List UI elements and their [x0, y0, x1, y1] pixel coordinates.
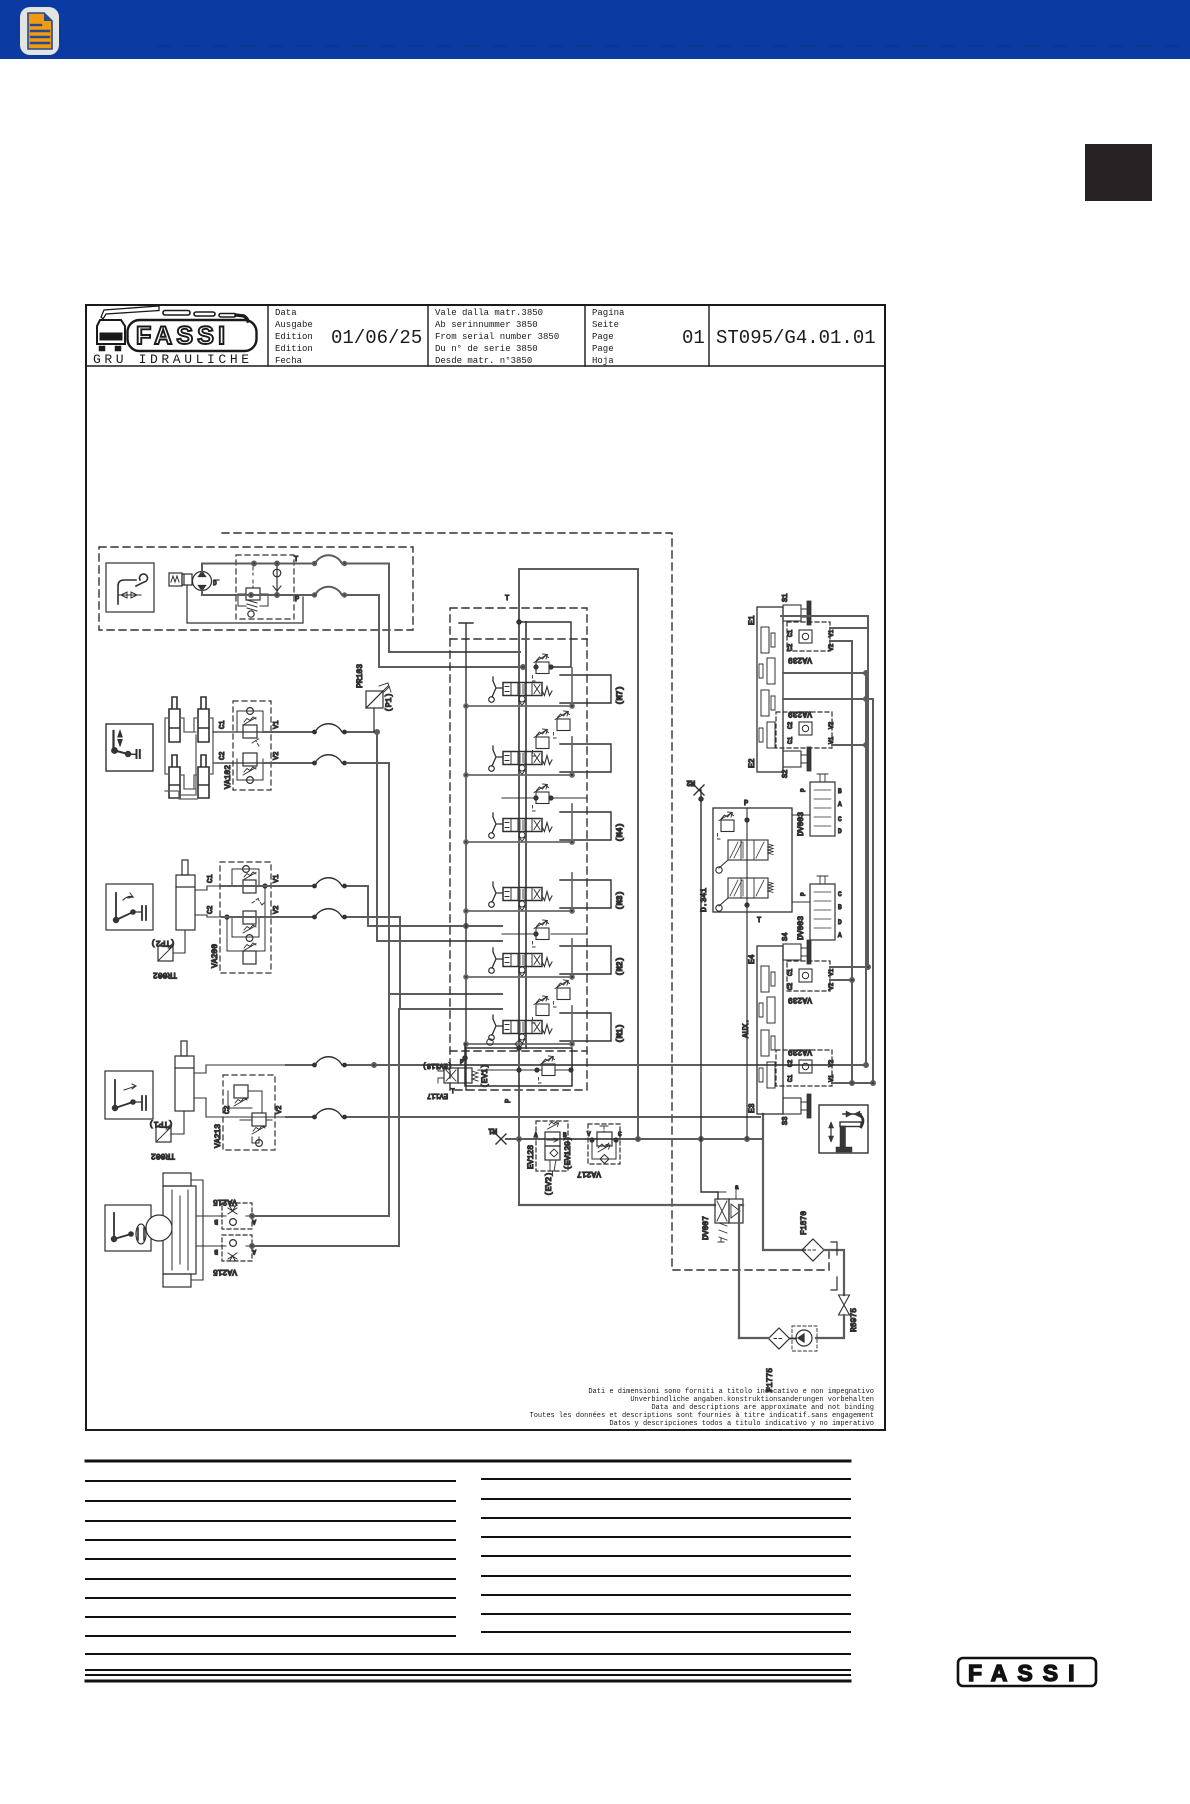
svg-text:TR002: TR002: [151, 1151, 175, 1160]
bracket port M7: [560, 675, 625, 705]
svg-text:VA213: VA213: [214, 1124, 223, 1148]
svg-text:PR103: PR103: [356, 664, 365, 688]
svg-text:E1: E1: [748, 615, 757, 625]
svg-text:C2: C2: [224, 1106, 232, 1114]
wire V1 group2: [222, 886, 502, 928]
svg-text:C2: C2: [787, 982, 794, 990]
svg-text:GRU IDRAULICHE: GRU IDRAULICHE: [93, 352, 253, 367]
svg-text:C: C: [838, 891, 842, 898]
wire bottom return: [739, 1337, 769, 1339]
svg-text:Pagina: Pagina: [592, 308, 625, 318]
bottom rule lines: [86, 1461, 850, 1681]
svg-text:Page: Page: [592, 332, 614, 342]
bus vertical b: [781, 616, 868, 967]
solenoid valve EV117: [423, 1059, 490, 1099]
cylinder group3: [175, 1041, 286, 1117]
valve bank dashed enclosure: [450, 608, 587, 1090]
svg-text:E2: E2: [748, 758, 757, 768]
svg-text:Du n° de serie 3850: Du n° de serie 3850: [435, 344, 538, 354]
wire pump P line: [202, 591, 313, 598]
svg-text:Fecha: Fecha: [275, 356, 303, 366]
svg-text:(M4): (M4): [616, 823, 625, 842]
svg-text:D.341: D.341: [700, 888, 709, 912]
bracket port M3: [560, 880, 625, 910]
ICON: orange document glyph: [28, 13, 52, 49]
svg-text:B: B: [838, 904, 842, 911]
svg-text:A: A: [252, 1248, 256, 1255]
svg-text:V1: V1: [828, 736, 835, 744]
svg-text:F1870: F1870: [800, 1211, 809, 1235]
svg-text:T: T: [757, 917, 761, 925]
bank spool valve M7: [489, 677, 552, 706]
svg-text:P: P: [800, 788, 807, 792]
wire VA239 n3 out: [830, 965, 870, 982]
icon box winch: [105, 1205, 151, 1251]
svg-text:Page: Page: [592, 344, 614, 354]
labels C1 C2 V1 V2 group1: [219, 721, 281, 760]
wire M1 line: [506, 1137, 762, 1141]
svg-text:V2: V2: [828, 982, 835, 990]
svg-text:VA239: VA239: [788, 709, 812, 718]
valve VA102 internals: [237, 708, 263, 784]
title block texts: [275, 308, 876, 366]
bank spool valve M6: [489, 746, 552, 775]
svg-text:VA215: VA215: [213, 1267, 237, 1276]
top blue bar: [0, 0, 1190, 59]
hose break V2 g2: [313, 909, 346, 919]
svg-text:(EV118): (EV118): [423, 1061, 452, 1069]
bracket port M4: [560, 812, 625, 842]
icon box stabilizers: [106, 724, 153, 771]
wire V1 group1: [263, 730, 379, 734]
hose break T: [313, 555, 346, 565]
svg-text:D: D: [213, 580, 217, 587]
check valve pump: [273, 564, 281, 595]
hose break P: [313, 587, 346, 597]
wire V2 group2: [222, 917, 502, 1009]
bus vertical c: [865, 673, 867, 1065]
stabilizer cylinders group1: [165, 697, 213, 799]
relief valve bank 6b: [533, 996, 550, 1023]
svg-text:V1: V1: [273, 721, 281, 729]
svg-text:B: B: [563, 1132, 567, 1139]
svg-text:Seite: Seite: [592, 320, 619, 330]
svg-text:B: B: [838, 788, 842, 795]
wire V1 group3: [286, 1063, 868, 1067]
icon box pump symbol: [106, 563, 154, 612]
svg-text:From serial number 3850: From serial number 3850: [435, 332, 559, 342]
svg-text:B: B: [214, 1248, 218, 1255]
drawing frame: [86, 305, 885, 1430]
T label bank: [505, 595, 509, 603]
wire VA239 n4 out: [832, 1081, 875, 1085]
svg-text:Toutes les données et descript: Toutes les données et descriptions sont …: [530, 1412, 874, 1420]
bracket port M6: [560, 744, 611, 772]
svg-text:Unverbindliche angaben.konstru: Unverbindliche angaben.konstruktionsande…: [630, 1396, 874, 1404]
svg-text:V2: V2: [828, 721, 835, 729]
svg-text:(M7): (M7): [616, 686, 625, 705]
wire feed to F1870: [763, 1114, 805, 1250]
svg-text:Desde matr. n°3850: Desde matr. n°3850: [435, 356, 532, 366]
svg-text:V1: V1: [828, 968, 835, 976]
svg-text:Vale dalla matr.3850: Vale dalla matr.3850: [435, 308, 543, 318]
hose break V2 g1: [313, 755, 346, 765]
svg-text:VA239: VA239: [788, 995, 812, 1004]
svg-text:FASSI: FASSI: [136, 322, 229, 350]
svg-text:S1: S1: [782, 594, 790, 602]
svg-text:(P1): (P1): [385, 693, 394, 712]
wire pump case drain: [187, 586, 303, 623]
svg-text:M1: M1: [489, 1126, 497, 1134]
bank spool valve M1: [489, 1015, 552, 1044]
wire V2 group1: [263, 762, 313, 764]
dashed enclosure pump unit: [99, 547, 413, 630]
pump return: [792, 1326, 817, 1351]
big dashed enclosure right: [222, 533, 829, 1270]
svg-text:P: P: [505, 1099, 513, 1103]
labels C2 V2 group3: [224, 1106, 284, 1114]
valve VA200 dashed box: [220, 862, 271, 973]
svg-text:P: P: [295, 596, 299, 604]
wire E-block mid ports: [783, 671, 873, 701]
filter F1775: [766, 1328, 796, 1392]
bank spool valve M2: [489, 948, 552, 977]
wire bank T main vertical: [518, 569, 520, 1205]
valve DV007: [702, 1184, 743, 1242]
svg-text:S3: S3: [782, 1117, 790, 1125]
svg-text:T: T: [451, 1088, 455, 1095]
svg-text:C1: C1: [207, 875, 215, 883]
relief valve bank 6a: [554, 980, 571, 1007]
wire V1 g1 down to bank: [377, 732, 502, 941]
valve DV003 lower: [797, 876, 842, 940]
icon box boom2: [105, 1071, 153, 1119]
bus vertical d: [872, 699, 874, 1083]
svg-text:TR002: TR002: [153, 970, 177, 979]
svg-text:C1: C1: [787, 1074, 794, 1082]
svg-text:E3: E3: [748, 1103, 757, 1113]
bracket port M2: [560, 946, 625, 976]
cylinder group2: [176, 860, 222, 930]
svg-text:C1: C1: [219, 721, 227, 729]
cylinder block E4 AUX E3: [742, 946, 783, 1114]
svg-text:C2: C2: [787, 721, 794, 729]
hose break V1 g1: [313, 724, 346, 734]
svg-text:C2: C2: [207, 906, 215, 914]
wire winch A upper 2: [250, 1009, 399, 1248]
svg-text:Dati e dimensioni sono forniti: Dati e dimensioni sono forniti a titolo …: [588, 1388, 874, 1396]
svg-text:ST095/G4.01.01: ST095/G4.01.01: [716, 327, 876, 349]
icon box boom1: [106, 884, 153, 930]
relief valve bank 2a: [554, 711, 571, 738]
valve VA102 dashed box: [233, 701, 271, 790]
hose break V1 g3: [313, 1057, 346, 1067]
bracket marks union: [831, 1242, 837, 1290]
wire DV007 drain down: [739, 1205, 743, 1338]
svg-text:D: D: [838, 828, 842, 835]
svg-text:T: T: [505, 595, 509, 603]
svg-text:VA239: VA239: [788, 655, 812, 664]
svg-text:AUX.: AUX.: [742, 1019, 751, 1038]
relief valve D341: [718, 812, 735, 839]
svg-text:(TP2): (TP2): [151, 938, 175, 947]
dark rectangle top right: [1085, 144, 1152, 201]
relief valve bank bottom: [478, 1056, 573, 1083]
FASSI logo top-left with truck: [93, 306, 257, 367]
svg-text:VA200: VA200: [211, 944, 220, 968]
valve VA239 n3: [787, 961, 830, 991]
svg-text:Data and descriptions are appr: Data and descriptions are approximate an…: [651, 1404, 874, 1412]
wire VA239 n1 out: [830, 628, 868, 641]
filter F1870: [800, 1211, 824, 1261]
wire D341 T down: [746, 912, 748, 1139]
svg-text:C: C: [618, 1131, 622, 1138]
svg-text:V1: V1: [828, 629, 835, 637]
svg-text:S4: S4: [782, 933, 790, 941]
svg-text:(EV2): (EV2): [545, 1172, 554, 1196]
valve VA239 n2: [776, 712, 832, 748]
svg-text:Datos y descripciones todos a: Datos y descripciones todos a titulo ind…: [609, 1420, 874, 1428]
valve VA215 lower dashed: [222, 1235, 252, 1261]
svg-text:P: P: [744, 800, 748, 808]
svg-text:Ab serinnummer 3850: Ab serinnummer 3850: [435, 320, 538, 330]
bank bottom section frame: [463, 1039, 572, 1086]
svg-text:A: A: [838, 932, 842, 939]
svg-text:Data: Data: [275, 308, 297, 318]
svg-text:EV117: EV117: [427, 1091, 448, 1099]
relief valve bank 3: [502, 784, 587, 811]
svg-text:C1: C1: [787, 968, 794, 976]
svg-text:(M3): (M3): [616, 891, 625, 910]
P label pump: [295, 596, 299, 604]
manifold S1: [782, 594, 811, 625]
svg-text:a: a: [735, 1184, 739, 1191]
hose break V2 g3: [313, 1109, 346, 1119]
svg-text:(EV1): (EV1): [481, 1064, 490, 1088]
svg-text:DV003: DV003: [797, 916, 806, 940]
svg-text:S2: S2: [782, 770, 790, 778]
wire P to bank: [347, 595, 525, 669]
wire bank internal T stub: [459, 620, 571, 1090]
FASSI logo bottom right: [958, 1658, 1096, 1686]
manifold S3: [782, 1094, 811, 1125]
valve VA215 upper internals: [213, 1197, 256, 1225]
svg-text:DV007: DV007: [702, 1216, 711, 1240]
svg-text:(TP1): (TP1): [149, 1119, 173, 1128]
node M1 measure point: [489, 1126, 506, 1144]
node M2 measure point: [687, 778, 718, 1199]
bank spool valve M3: [489, 882, 552, 911]
svg-text:Edition: Edition: [275, 344, 313, 354]
wire winch A upper: [250, 994, 389, 1218]
label VA213: [214, 1124, 223, 1148]
wire T to bank: [347, 564, 520, 653]
svg-text:V: V: [587, 1131, 591, 1138]
hose break V1 g2: [313, 878, 346, 888]
svg-text:V1: V1: [828, 1074, 835, 1082]
svg-text:M2: M2: [687, 778, 695, 786]
svg-text:F1775: F1775: [766, 1368, 775, 1392]
svg-text:V2: V2: [828, 1059, 835, 1067]
wire pump T line: [202, 562, 313, 572]
svg-text:C: C: [838, 816, 842, 823]
svg-text:D: D: [838, 919, 842, 926]
sensor TR002 TP1: [149, 1111, 184, 1160]
svg-text:P: P: [800, 892, 807, 896]
bracket port M1: [560, 1013, 625, 1043]
bus vertical a: [851, 641, 853, 1083]
relief valve bank main: [533, 654, 554, 681]
relief valve bank 5: [502, 920, 587, 947]
spool valve D341 upper: [716, 840, 773, 873]
svg-text:FASSI: FASSI: [968, 1660, 1084, 1686]
svg-text:R6975: R6975: [850, 1308, 859, 1332]
svg-text:V1: V1: [273, 875, 281, 883]
pump P: [193, 572, 220, 591]
svg-text:A: A: [252, 1218, 256, 1225]
sensor TR002 TP2: [151, 930, 185, 979]
svg-text:B: B: [214, 1218, 218, 1225]
svg-text:(M1): (M1): [616, 1024, 625, 1043]
label VA200: [211, 944, 220, 968]
pressure gauge PR103: [356, 664, 394, 732]
valve VA239 n4: [776, 1050, 832, 1086]
svg-text:(M2): (M2): [616, 957, 625, 976]
wires cylinders to VA102: [213, 732, 313, 763]
solenoid valve EV128: [536, 1121, 568, 1171]
svg-text:C2: C2: [787, 643, 794, 651]
svg-text:V2: V2: [273, 752, 281, 760]
manifold S2: [782, 747, 811, 778]
wire bank P second vertical: [525, 622, 527, 1048]
valve VA217: [588, 1124, 620, 1164]
svg-text:01: 01: [682, 327, 705, 349]
bank spool valve M4: [489, 813, 552, 842]
dashed box relief unit: [236, 555, 294, 619]
svg-text:A: A: [534, 1132, 538, 1139]
svg-text:C2: C2: [219, 752, 227, 760]
labels C1 C2 V1 V2 group2: [207, 875, 281, 914]
relief valve bank 2b: [533, 729, 550, 756]
svg-text:T: T: [294, 556, 298, 564]
svg-text:(EV129): (EV129): [564, 1136, 573, 1170]
faint dashes in blue bar: [158, 45, 1178, 47]
svg-text:VA217: VA217: [577, 1169, 601, 1178]
wire V2 group3: [286, 1116, 760, 1118]
svg-text:C2: C2: [787, 1059, 794, 1067]
valve R6975: [839, 1295, 860, 1332]
svg-text:C1: C1: [787, 629, 794, 637]
svg-text:V2: V2: [273, 906, 281, 914]
svg-text:Edition: Edition: [275, 332, 313, 342]
valve VA215 upper dashed: [222, 1203, 252, 1229]
valve VA239 n1: [787, 622, 830, 651]
svg-text:01/06/25: 01/06/25: [331, 327, 422, 349]
icon box stabilizer right: [819, 1105, 868, 1153]
P label bank bottom: [505, 1099, 513, 1103]
svg-text:VA215: VA215: [213, 1197, 237, 1206]
wire bank valve loops: [464, 668, 574, 1046]
valve VA213 internals: [228, 1085, 272, 1146]
rotary actuator: [146, 1173, 222, 1287]
svg-text:EV128: EV128: [527, 1145, 536, 1169]
svg-text:V2: V2: [828, 643, 835, 651]
motor M1 box: [169, 573, 192, 586]
valve VA200 internals: [225, 866, 267, 964]
svg-text:E4: E4: [748, 954, 757, 964]
wire bank T top link: [519, 569, 638, 1139]
svg-text:A: A: [838, 801, 842, 808]
svg-text:VA239: VA239: [788, 1047, 812, 1056]
svg-text:V2: V2: [276, 1106, 284, 1114]
svg-text:C1: C1: [787, 736, 794, 744]
wire V2 g1 down to bank: [347, 763, 502, 994]
valve VA215 lower internals: [213, 1240, 256, 1276]
manifold S4: [782, 933, 811, 964]
relief valve pump: [238, 567, 268, 617]
svg-text:Hoja: Hoja: [592, 356, 614, 366]
wire VA239 n2 out: [832, 743, 868, 747]
svg-text:Ausgabe: Ausgabe: [275, 320, 313, 330]
wire F1870 to R6975: [824, 1250, 844, 1295]
disclaimer: [530, 1388, 874, 1428]
cylinder block E1 E2: [748, 607, 783, 772]
block D341: [700, 800, 792, 925]
wire D341 to DV003: [792, 815, 810, 902]
document icon background: [20, 7, 59, 55]
wire T drain to DV007: [519, 1204, 715, 1206]
label VA102: [224, 765, 233, 789]
wire R6975 down: [816, 1315, 844, 1338]
valve DV003 upper: [797, 774, 842, 836]
valve VA213 dashed box: [223, 1075, 275, 1150]
spool valve D341 lower: [716, 878, 773, 911]
T label pump: [294, 556, 298, 564]
svg-text:VA102: VA102: [224, 765, 233, 789]
